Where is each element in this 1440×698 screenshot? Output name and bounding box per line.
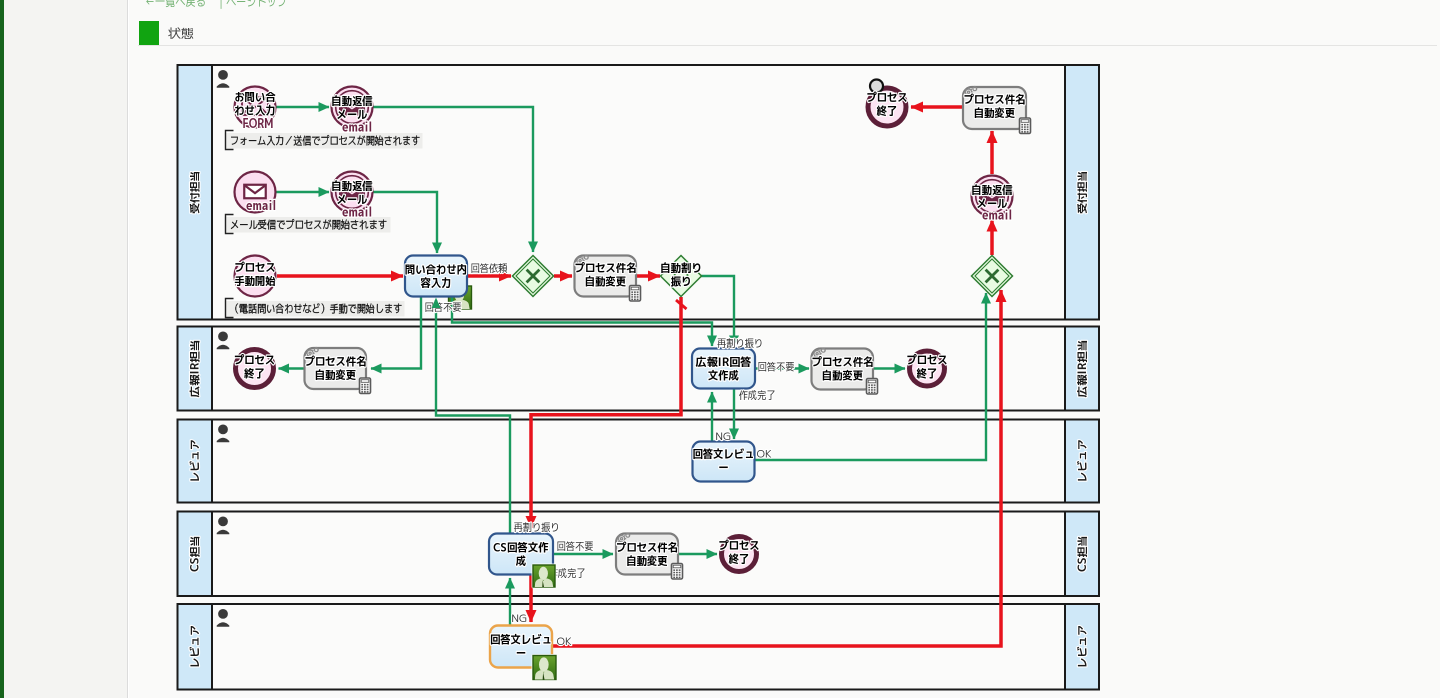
svg-text:文作成: 文作成 — [708, 368, 739, 384]
svg-text:email: email — [246, 197, 276, 215]
svg-text:（電話問い合わせなど）手動で開始します: （電話問い合わせなど）手動で開始します — [230, 301, 402, 317]
svg-text:受付担当: 受付担当 — [188, 171, 203, 214]
svg-text:回答不要: 回答不要 — [425, 301, 462, 315]
svg-text:自動変更: 自動変更 — [974, 105, 1016, 121]
svg-text:作成完了: 作成完了 — [739, 389, 776, 403]
svg-text:自動変更: 自動変更 — [315, 367, 357, 383]
svg-text:レビュア: レビュア — [1075, 439, 1090, 482]
svg-text:レビュア: レビュア — [188, 625, 203, 668]
svg-text:広報IR担当: 広報IR担当 — [188, 340, 203, 398]
svg-text:回答不要: 回答不要 — [758, 361, 795, 375]
svg-text:CS担当: CS担当 — [188, 536, 203, 572]
svg-text:自動変更: 自動変更 — [585, 274, 627, 290]
svg-text:NG: NG — [715, 430, 730, 444]
svg-text:レビュア: レビュア — [188, 439, 203, 482]
svg-text:ー: ー — [516, 645, 526, 661]
svg-text:振り: 振り — [671, 274, 692, 290]
svg-text:フォーム入力／送信でプロセスが開始されます: フォーム入力／送信でプロセスが開始されます — [230, 133, 420, 149]
svg-text:終了: 終了 — [729, 551, 750, 567]
svg-text:成: 成 — [516, 553, 527, 569]
svg-text:CS担当: CS担当 — [1075, 536, 1090, 572]
svg-text:email: email — [342, 204, 372, 222]
svg-text:広報IR担当: 広報IR担当 — [1075, 340, 1090, 398]
svg-text:終了: 終了 — [244, 366, 265, 382]
svg-text:再割り振り: 再割り振り — [717, 337, 763, 351]
svg-text:FORM: FORM — [243, 115, 274, 133]
svg-text:受付担当: 受付担当 — [1075, 171, 1090, 214]
svg-text:回答依頼: 回答依頼 — [471, 262, 508, 276]
svg-text:終了: 終了 — [877, 103, 898, 119]
svg-text:容入力: 容入力 — [421, 275, 452, 291]
svg-text:レビュア: レビュア — [1075, 625, 1090, 668]
svg-text:再割り振り: 再割り振り — [514, 521, 560, 535]
svg-text:自動変更: 自動変更 — [626, 553, 668, 569]
svg-text:ー: ー — [718, 460, 728, 476]
svg-text:自動変更: 自動変更 — [822, 368, 864, 384]
svg-text:email: email — [342, 119, 372, 137]
svg-text:NG: NG — [511, 612, 526, 626]
svg-text:email: email — [982, 207, 1012, 225]
svg-text:終了: 終了 — [917, 366, 938, 382]
svg-text:手動開始: 手動開始 — [234, 273, 276, 289]
svg-text:回答不要: 回答不要 — [557, 540, 594, 554]
svg-text:OK: OK — [756, 448, 771, 462]
svg-text:OK: OK — [556, 635, 571, 649]
